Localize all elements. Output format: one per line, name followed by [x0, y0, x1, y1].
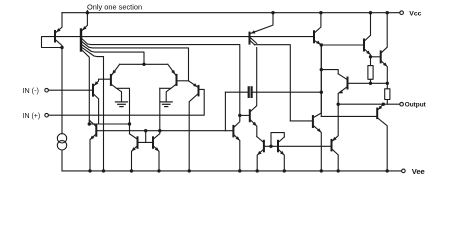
node: base tap — [144, 129, 147, 132]
svg-text:IN (+): IN (+) — [23, 113, 41, 120]
wire: cap left plate down to second stage input — [224, 92, 226, 131]
wire: Q1 base-collector tie loop — [42, 37, 63, 48]
leader line from label to Vcc rail — [86, 11, 88, 13]
Vcc terminal circle — [400, 11, 404, 15]
transistor Q20 (sink PNP) — [332, 104, 339, 171]
node: Q15 emitter / Q16 base — [320, 43, 323, 46]
node dots on Vee rail — [88, 169, 389, 172]
label IN (+) — [23, 113, 41, 120]
svg-text:Vee: Vee — [412, 167, 425, 176]
wire: base tap down to Qb/Qc bases — [145, 131, 147, 143]
Vcc rail — [62, 12, 400, 14]
node: Q19 emitter on output — [382, 103, 385, 106]
node: tail current on emitter rail — [142, 63, 145, 66]
node: Qb collector joins link — [128, 122, 131, 125]
svg-text:Only one section: Only one section — [87, 2, 142, 11]
node: Q17 collector on Vcc rail — [386, 11, 389, 14]
transistor Q5 (inner input PNP, right) — [160, 64, 189, 102]
transistor Q21 (bottom mirror NPN left) — [257, 137, 264, 171]
node: Q2 emitter on Vcc rail — [86, 11, 89, 14]
svg-text:IN (-): IN (-) — [23, 86, 39, 95]
wire: Q22 collector diode tie — [271, 133, 284, 147]
node: Q8 emitter on Vcc rail — [271, 11, 274, 14]
transistor Q1 (diode-connected PNP, bias reference) — [55, 13, 62, 48]
output line — [338, 103, 400, 105]
transistor Q15 (level shift NPN) — [314, 13, 321, 45]
node: Q13 collector / Q9 base / bus junction — [238, 114, 241, 117]
transistor Q8 (PNP current source pair) — [250, 13, 274, 45]
transistor Q9 (second stage NPN) — [240, 48, 257, 137]
transistor Q3 (outer input PNP, IN-) — [93, 79, 111, 124]
wire: Q2 collector c4 to short bus y=56.6 down to Vee — [82, 47, 104, 170]
transistor Q17 (output NPN) — [381, 13, 388, 84]
wire: input pair emitter rail — [120, 63, 168, 65]
Vee terminal circle — [402, 169, 406, 173]
node: Q5 collector branch joins rail — [158, 129, 161, 132]
resistor R1 — [368, 66, 373, 84]
wire: current source to Vee rail — [61, 150, 63, 171]
wire: IN+ to Q6 base riser — [48, 89, 204, 115]
wire: Q5 collector branch — [159, 88, 161, 130]
wire: Q2 collector c5 down to mirror node — [82, 50, 90, 124]
transistor Q12 (mirror NPN right) — [153, 131, 160, 171]
node: Q17 emitter / R2 top junction — [386, 82, 389, 85]
svg-text:Output: Output — [405, 102, 427, 109]
wire: bottom mirror base rail to Q20 base — [264, 145, 332, 147]
wire: mirror base rail y=130.7 — [96, 130, 233, 132]
wire: Q16 base line — [321, 44, 364, 46]
label Vcc — [409, 11, 421, 18]
transistor Q18 (output follower NPN) — [338, 74, 387, 104]
label: Only one section — [87, 2, 142, 11]
wire: Q1 node down to current source — [61, 48, 63, 134]
transistor Q13 (second stage driver NPN) — [233, 115, 239, 170]
transistor Q6 (outer input PNP, IN+) — [189, 81, 199, 171]
node: Q16 collector on Vcc rail — [369, 11, 372, 14]
wire: Q8 collector2 to output driver base — [255, 45, 291, 121]
wire: mirror input link y=124 — [89, 123, 129, 125]
IN+ terminal circle — [45, 113, 49, 117]
transistor Q11 (mirror NPN left) — [130, 134, 138, 171]
node: branch to Q18 emitter — [320, 68, 323, 71]
ground symbol G1 — [116, 102, 128, 107]
compensation capacitor C1 — [225, 87, 251, 97]
Output terminal circle — [400, 102, 404, 106]
transistor Q4 (inner input PNP, left) — [111, 64, 130, 134]
wire: common base rail (Q1,Q2,Q8,Q15 bases) — [55, 36, 314, 38]
wire: Q2 collector c2 to bus y=47.9 down to Q5 base node — [82, 42, 189, 81]
wire: Q17 base line — [371, 56, 381, 58]
wire: Q2 collector c1 to bus y=44.6 down to Q9 base node — [82, 39, 240, 116]
label Output — [405, 102, 427, 109]
label IN (-) — [23, 86, 39, 95]
Vee rail — [62, 170, 402, 172]
wire: main vertical drive node — [320, 45, 322, 116]
transistor Q14 (sink driver NPN) — [290, 45, 321, 171]
node: Q16 emitter / Q17 base — [369, 55, 372, 58]
wire: IN- to Q3 base — [48, 89, 93, 91]
wire: Q11-Q12 base tie — [138, 141, 154, 143]
transistor Q2 (multi-collector PNP bias distributor) — [81, 13, 87, 51]
transistor Q7 (bias helper NPN) — [89, 120, 96, 171]
node: Q15 collector on Vcc rail — [319, 11, 322, 14]
node: bias line crossing — [320, 91, 323, 94]
transistor Q19 (output sink PNP) — [321, 104, 387, 171]
ground symbol G2 — [160, 102, 172, 107]
node: Q1 collector junction — [60, 46, 63, 49]
label Vee — [412, 167, 425, 176]
transistor Q22 (bottom mirror NPN right, diode) — [278, 137, 284, 171]
resistor R2 — [385, 83, 390, 104]
node: R1 bottom on Q18 base line — [369, 82, 372, 85]
wire: Q2 collector c3 to bus y=52.1 down to input tail — [82, 45, 144, 65]
node: Q18 collector / Q20 emitter on output — [337, 103, 340, 106]
IN- terminal circle — [45, 88, 49, 92]
transistor Q16 (output NPN driver) — [364, 13, 371, 66]
wire: cap node line to output bias network — [252, 91, 322, 93]
node: left mirror link — [88, 122, 91, 125]
svg-text:Vcc: Vcc — [409, 11, 421, 18]
current source I1 (two circles) — [57, 134, 66, 150]
node: diode tie on base rail — [269, 145, 272, 148]
wire: branch to Q18 emitter — [321, 70, 338, 74]
